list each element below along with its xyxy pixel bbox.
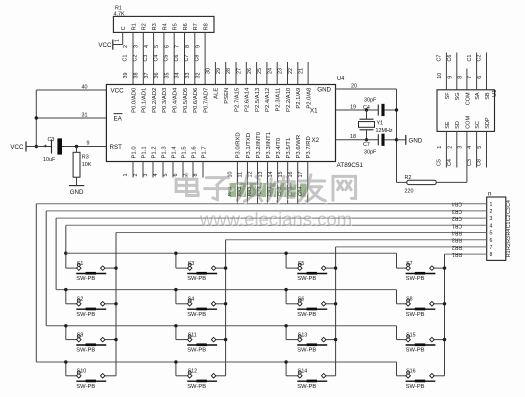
svg-text:R6: R6 [183,23,189,30]
wire U4 pin 8 P1.7 stub [193,162,203,178]
svg-text:C3: C3 [48,137,55,143]
svg-text:P0.3/AD3: P0.3/AD3 [162,87,168,113]
svg-text:C1: C1 [506,222,512,229]
svg-text:P0.4/AD4: P0.4/AD4 [173,87,179,113]
svg-text:17: 17 [298,172,304,178]
wire U4 pin 29 stub [216,62,226,85]
svg-text:35: 35 [164,73,170,79]
svg-text:19: 19 [350,104,356,110]
svg-text:7: 7 [467,76,473,79]
wire U4 pin 13 P3.3 net RR4 [257,162,267,204]
wire bus net C2 to connector pin 3 [56,215,487,221]
wire bus net R2 to connector pin 7 [336,244,487,250]
svg-text:R3: R3 [152,23,158,30]
svg-text:P3.7/RD: P3.7/RD [306,136,312,158]
svg-text:SW-PB: SW-PB [297,312,316,318]
svg-text:COM: COM [465,92,471,105]
wire net C4 vertical to keypad row 4 [35,204,37,362]
svg-text:S12: S12 [188,369,197,375]
svg-text:P3.3/INT1: P3.3/INT1 [266,132,272,159]
svg-text:5: 5 [154,45,160,48]
svg-text:P2.1/A9: P2.1/A9 [296,88,302,109]
wire VCC to C3 [26,146,52,148]
svg-text:S16: S16 [406,369,415,375]
svg-text:S6: S6 [298,297,305,303]
svg-text:5: 5 [477,146,483,149]
wire U1 pin 5 net C8 [477,131,487,167]
wire right terminal row 3 col 4 [434,339,444,341]
svg-text:P0.6/AD6: P0.6/AD6 [193,87,199,113]
svg-text:C2: C2 [133,55,139,62]
svg-text:4: 4 [144,45,150,48]
svg-text:+: + [44,143,48,150]
capacitor C4 30pF [363,97,397,115]
wire net C5 : RP pin 6 to U4 pin 35 [164,32,175,84]
wire U4 pin 18 X2 [336,134,379,140]
svg-text:SW-PB: SW-PB [406,384,425,390]
svg-text:X2: X2 [312,137,320,144]
wire right terminal row 1 col 3 [326,267,336,269]
svg-text:20: 20 [351,83,357,89]
node junction row 3 col 2 [174,324,177,327]
wire keypad column 2 vertical [216,240,226,376]
wire stub row 3 col 1 [66,326,77,340]
wire U4 pin 17 P3.7 net CR4 [297,162,307,204]
svg-text:RST: RST [110,144,123,151]
wire right terminal row 3 col 2 [216,339,226,341]
node junction column 2 row 3 [224,338,227,341]
svg-text:P1.2: P1.2 [151,146,157,158]
wire keypad column 4 vertical [434,254,444,376]
svg-text:4: 4 [490,223,493,229]
connector n header [487,191,512,261]
wire U4 pin 6 P1.5 stub [173,162,183,178]
svg-text:n: n [488,191,492,198]
svg-text:R1: R1 [131,23,137,30]
switch S7 SW-PB [406,261,436,282]
ground GND (reset network) [69,186,84,196]
wire stub row 2 col 3 [286,290,298,304]
svg-text:25: 25 [257,68,263,74]
svg-text:11: 11 [238,172,244,178]
wire U4 pin 10 P3.0 net RR1 [227,162,237,204]
svg-text:3: 3 [134,45,140,48]
switch S9 SW-PB [76,332,106,353]
node junction row1 bus [64,252,67,255]
svg-text:37: 37 [144,73,150,79]
svg-text:SG: SG [455,92,461,100]
svg-text:SW-PB: SW-PB [187,312,206,318]
svg-text:CR1: CR1 [452,222,462,228]
wire U4 pin 22 stub [288,62,298,85]
svg-text:3: 3 [490,216,493,222]
wire right terminal row 1 col 4 [434,267,444,269]
svg-text:7: 7 [175,45,181,48]
switch S16 SW-PB [406,369,436,390]
svg-text:220: 220 [405,189,414,195]
wire U4 pin 23 stub [278,62,288,85]
svg-text:R5: R5 [173,23,179,30]
wire stub row 4 col 2 [176,362,188,376]
svg-text:SW-PB: SW-PB [297,384,316,390]
node junction row 2 col 3 [284,288,287,291]
svg-text:SE: SE [445,121,451,129]
wire net C3 : RP pin 4 to U4 pin 37 [143,32,154,84]
svg-text:R2: R2 [506,243,512,250]
svg-text:U1: U1 [492,90,498,97]
node junction crystal/X2 [365,138,368,141]
svg-text:S4: S4 [188,297,195,303]
svg-text:24: 24 [267,68,273,74]
svg-text:RR2: RR2 [452,244,462,250]
node junction X1/crystal [365,108,368,111]
svg-text:C6: C6 [174,55,180,62]
wire net C3 vertical to keypad row 3 [45,211,47,326]
svg-text:SD: SD [455,121,461,129]
svg-text:P2.6/A14: P2.6/A14 [245,87,251,112]
wire right terminal row 3 col 1 [105,339,116,341]
svg-text:7: 7 [490,245,493,251]
svg-text:3: 3 [143,174,149,177]
node junction row 3 col 3 [284,324,287,327]
svg-text:S1: S1 [77,261,84,267]
wire net C8 : RP pin 9 to U4 pin 32 [195,32,206,84]
node junction column 4 row 2 [443,302,446,305]
svg-text:9: 9 [447,76,453,79]
resistor R2 220 [397,131,467,194]
power VCC (pull-up common) [98,40,112,50]
svg-text:6: 6 [164,45,170,48]
node junction row 2 col 2 [174,288,177,291]
wire keypad row 4 bus [36,362,406,376]
svg-text:S5: S5 [298,261,305,267]
switch S15 SW-PB [406,332,436,353]
svg-text:C5: C5 [437,159,443,166]
svg-text:R1: R1 [506,250,512,257]
wire right terminal row 2 col 3 [326,303,336,305]
svg-text:GND: GND [409,138,423,145]
wire U4 pin 12 P3.2 net RR3 [247,162,257,204]
svg-text:P2.5/A13: P2.5/A13 [255,87,261,112]
svg-text:C7: C7 [437,55,443,62]
svg-text:R8: R8 [204,23,210,30]
power VCC (left) [10,142,26,152]
wire U4 pin 40 VCC [36,84,106,90]
svg-text:S2: S2 [77,297,84,303]
svg-text:GND: GND [70,189,84,196]
wire net C7 : RP pin 8 to U4 pin 33 [184,32,195,84]
wire right terminal row 1 col 2 [216,267,226,269]
svg-text:38: 38 [134,73,140,79]
wire bus net C1 to connector pin 4 [66,222,487,228]
switch S14 SW-PB [297,369,327,390]
svg-text:S13: S13 [298,332,307,338]
svg-text:18: 18 [350,134,356,140]
wire stub row 2 col 1 [66,290,77,304]
svg-text:SC: SC [475,121,481,129]
svg-text:C4: C4 [447,159,453,166]
wire U4 pin 26 stub [247,62,257,85]
svg-text:PSEN: PSEN [224,88,230,104]
svg-text:R3: R3 [506,236,512,243]
wire U4 pin 27 stub [237,62,247,85]
svg-text:8: 8 [193,174,199,177]
svg-text:6: 6 [173,174,179,177]
wire U4 pin 14 P3.4 net CR1 [267,162,277,204]
svg-text:C7: C7 [184,55,190,62]
svg-text:C3: C3 [506,207,512,214]
svg-text:P3.0/RXD: P3.0/RXD [236,132,242,158]
node junction row 1 col 3 [284,252,287,255]
svg-text:34: 34 [175,73,181,79]
svg-text:R4: R4 [506,229,512,236]
svg-text:6: 6 [477,76,483,79]
svg-text:S3: S3 [188,261,195,267]
svg-text:10: 10 [437,73,443,79]
svg-text:RR1: RR1 [452,251,462,257]
svg-text:SW-PB: SW-PB [406,348,425,354]
switch S1 SW-PB [76,261,106,282]
wire U4 pin 31 EA [36,112,106,118]
svg-text:C5: C5 [164,55,170,62]
node junction row 4 col 1 [64,360,67,363]
wire net C4 : RP pin 5 to U4 pin 36 [153,32,164,84]
wire keypad row 2 bus [56,290,406,304]
node junction row 4 col 2 [174,360,177,363]
node junction pin31/rail [35,116,38,119]
svg-text:P0.7/AD7: P0.7/AD7 [203,88,209,113]
wire stub row 3 col 2 [176,326,188,340]
svg-text:C3: C3 [467,159,473,166]
svg-text:8: 8 [185,45,191,48]
switch S6 SW-PB [297,297,327,318]
svg-text:VCC: VCC [111,88,125,95]
svg-text:VCC: VCC [98,42,112,49]
svg-text:SW-PB: SW-PB [297,348,316,354]
svg-text:GND: GND [317,87,331,94]
svg-text:6: 6 [490,238,493,244]
svg-text:3: 3 [458,146,464,149]
svg-text:8: 8 [458,76,464,79]
svg-text:C8: C8 [477,159,483,166]
wire bus net R1 to connector pin 8 [445,251,487,257]
svg-text:31: 31 [82,112,88,118]
wire VCC to RP pin 1 [113,32,123,44]
wire stub row 2 col 2 [176,290,188,304]
wire bus net C3 to connector pin 2 [46,208,487,214]
svg-text:R2: R2 [405,175,412,181]
wire U4 pin 21 stub [298,62,308,85]
svg-text:C2: C2 [506,214,512,221]
svg-text:22: 22 [288,68,294,74]
svg-text:CR3: CR3 [452,208,462,214]
svg-text:P2.4/A12: P2.4/A12 [265,88,271,112]
svg-text:P0.5/AD5: P0.5/AD5 [183,87,189,113]
capacitor C7 30pF [363,134,397,156]
node junction column 2 row 2 [224,302,227,305]
svg-text:10uF: 10uF [43,157,56,163]
svg-text:P3.1/TXD: P3.1/TXD [246,133,252,159]
svg-text:SW-PB: SW-PB [187,348,206,354]
wire U4 pin 28 stub [226,62,236,85]
svg-text:EA: EA [114,116,123,123]
svg-text:27: 27 [237,68,243,74]
resistor network R1 4.7K [113,6,214,33]
svg-text:SW-PB: SW-PB [76,384,95,390]
svg-text:P1.3: P1.3 [161,146,167,159]
svg-text:R7: R7 [193,23,199,30]
svg-text:30pF: 30pF [364,150,377,156]
svg-text:R4: R4 [162,23,168,30]
svg-text:S10: S10 [77,369,86,375]
wire stub row 1 col 3 [286,253,298,268]
wire U4 pin 7 P1.6 stub [183,162,193,178]
wire keypad column 3 vertical [326,247,336,376]
svg-text:12MHz: 12MHz [376,128,393,134]
node junction column 4 row 1 [443,266,446,269]
svg-text:4: 4 [153,174,159,177]
ground GND (oscillator) [397,135,423,145]
wire U4 pin 1 P1.0 stub [123,162,133,178]
wire U4 pin 19 X1 [336,104,379,110]
svg-text:2: 2 [490,209,493,215]
wire U4 pin 24 stub [267,62,277,85]
wire bus net R3 to connector pin 6 [226,237,487,243]
wire U1 pin 6 net C2 [477,53,487,90]
svg-text:S9: S9 [77,332,84,338]
svg-text:32: 32 [195,73,201,79]
svg-text:4.7K: 4.7K [114,11,125,17]
wire U4 pin 5 P1.4 stub [163,162,173,178]
wire U1 pin 10 net C7 [437,53,447,90]
svg-text:P3.5/T1: P3.5/T1 [286,138,292,159]
svg-text:SB: SB [485,92,491,100]
svg-text:1: 1 [490,202,493,208]
svg-text:SW-PB: SW-PB [187,276,206,282]
svg-text:P1.4: P1.4 [171,146,177,159]
svg-text:P3.6/WR: P3.6/WR [296,135,302,159]
svg-text:C4: C4 [153,55,159,62]
svg-text:SW-PB: SW-PB [406,312,425,318]
wire U1 pin 3 COM (to R2) [458,146,464,149]
wire right terminal row 3 col 3 [326,339,336,341]
wire U4 pin 20 GND [336,83,397,89]
svg-text:36: 36 [154,73,160,79]
node junction reset/R3 [75,145,78,148]
svg-text:1: 1 [123,174,129,177]
svg-text:26: 26 [247,68,253,74]
svg-text:P2.3/A11: P2.3/A11 [276,88,282,112]
node junction row 3 col 1 [64,324,67,327]
svg-text:4: 4 [467,146,473,149]
node junction column 3 row 3 [334,338,337,341]
wire U1 pin 8 [458,69,467,90]
svg-text:39: 39 [123,73,129,79]
wire keypad row 1 bus [66,253,406,268]
svg-text:1: 1 [114,39,120,42]
svg-text:SW-PB: SW-PB [76,348,95,354]
svg-text:SW-PB: SW-PB [406,276,425,282]
wire U4 pin 4 P1.3 stub [153,162,163,178]
svg-text:SW-PB: SW-PB [76,276,95,282]
wire U4 pin 11 P3.1 net RR2 [237,162,247,204]
wire U4 pin 25 stub [257,62,267,85]
wire U1 pin 4 net C3 [467,131,477,167]
svg-text:S8: S8 [406,297,413,303]
switch S5 SW-PB [297,261,327,282]
wire stub row 4 col 1 [66,362,77,376]
svg-text:SW-PB: SW-PB [187,384,206,390]
svg-text:23: 23 [278,68,284,74]
svg-text:www.elecians.com: www.elecians.com [199,209,352,230]
wire U4 pin 30 stub [206,62,216,85]
wire net C2 : RP pin 3 to U4 pin 38 [133,32,144,84]
svg-text:9: 9 [195,45,201,48]
svg-text:8: 8 [490,252,493,258]
svg-text:30pF: 30pF [364,97,377,103]
switch S4 SW-PB [187,297,217,318]
wire right terminal row 2 col 4 [434,303,444,305]
svg-text:P1.0: P1.0 [131,146,137,159]
capacitor C3 10uF [43,137,62,163]
node junction C4/GND bus [395,108,398,111]
wire net C1 vertical to keypad row 1 [66,225,77,268]
svg-text:P0.2/AD2: P0.2/AD2 [152,88,158,113]
wire stub row 1 col 2 [176,253,188,268]
svg-text:P1.5: P1.5 [181,146,187,159]
wire right terminal row 2 col 2 [216,303,226,305]
svg-text:S15: S15 [406,332,415,338]
svg-text:SF: SF [445,92,451,100]
wire keypad row 3 bus [46,326,406,340]
svg-text:CR2: CR2 [452,215,462,221]
svg-text:40: 40 [82,84,88,90]
svg-text:SDP: SDP [485,117,491,129]
svg-text:30: 30 [206,68,212,74]
svg-text:Y1: Y1 [377,120,384,126]
svg-text:AT89C51: AT89C51 [337,162,364,169]
svg-text:2: 2 [447,146,453,149]
svg-text:C6: C6 [447,55,453,62]
svg-text:C8: C8 [195,55,201,62]
svg-text:S11: S11 [188,332,197,338]
node junction row 2 col 1 [64,288,67,291]
svg-text:C2: C2 [477,55,483,62]
svg-text:P1.7: P1.7 [201,146,207,158]
svg-text:10K: 10K [82,162,92,168]
node junction column 1 row 3 [114,338,117,341]
svg-text:P1.6: P1.6 [191,146,197,159]
svg-text:14: 14 [268,172,274,178]
node junction column 4 row 3 [443,338,446,341]
wire net C6 : RP pin 7 to U4 pin 34 [174,32,185,84]
node junction rail/reset line [35,145,38,148]
node junction column 3 row 2 [334,302,337,305]
switch S12 SW-PB [187,369,217,390]
wire bus net R4 to connector pin 5 [116,230,487,236]
switch S13 SW-PB [297,332,327,353]
wire net C1 : RP pin 2 to U4 pin 39 [122,32,133,84]
svg-text:VCC: VCC [10,144,24,151]
svg-text:RR4: RR4 [452,230,462,236]
svg-text:2: 2 [123,45,129,48]
svg-text:COM: COM [465,116,471,129]
svg-text:ALE: ALE [214,88,220,99]
svg-text:C: C [121,26,127,30]
svg-text:SW-PB: SW-PB [76,312,95,318]
watermark [176,174,357,230]
svg-text:P0.0/AD0: P0.0/AD0 [131,87,137,113]
